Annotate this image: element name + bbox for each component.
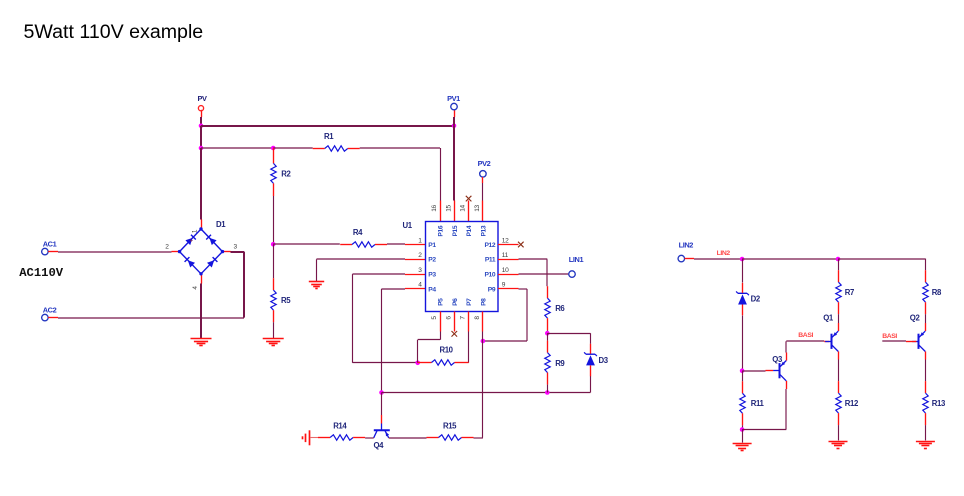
wire [453, 126, 455, 201]
svg-text:R4: R4 [353, 228, 363, 237]
resistor R6 [545, 286, 566, 330]
wire [785, 341, 787, 352]
svg-text:R6: R6 [555, 304, 565, 313]
junction [545, 331, 550, 336]
svg-text:5: 5 [431, 316, 438, 320]
junction [271, 242, 276, 247]
bridge pin 3 stub [223, 251, 231, 253]
bridge pin 4 stub [201, 274, 203, 284]
wire [360, 147, 440, 149]
svg-text:16: 16 [431, 205, 438, 212]
wire [201, 125, 454, 127]
U1 pin 7 name/number [460, 298, 474, 320]
wire [838, 314, 840, 323]
wire [925, 314, 927, 323]
U1 pin 5 name/number [431, 298, 445, 320]
junction [415, 361, 420, 366]
wire [547, 330, 549, 333]
wire [786, 340, 824, 342]
svg-text:BASI: BASI [798, 332, 813, 339]
U1 pin 14 name/number [460, 205, 474, 237]
svg-text:12: 12 [502, 237, 509, 244]
wire [925, 360, 927, 382]
U1 pin 11 name/number [485, 252, 509, 264]
wire [547, 333, 590, 335]
resistor R2 [271, 163, 292, 183]
wire [58, 251, 172, 253]
svg-text:6: 6 [445, 316, 452, 320]
svg-text:P14: P14 [466, 225, 473, 236]
svg-text:R10: R10 [440, 345, 454, 354]
U1 pin 1 stub [405, 244, 426, 246]
wire [231, 251, 245, 253]
wire [387, 243, 405, 245]
transistor Q2 emitter lead [925, 352, 927, 360]
wire [58, 317, 244, 319]
svg-text:2: 2 [165, 243, 169, 250]
svg-text:R9: R9 [555, 359, 565, 368]
U1 pin 13 stub [482, 201, 484, 222]
port PV1 [447, 94, 460, 110]
wire [482, 332, 484, 342]
svg-text:P12: P12 [484, 242, 495, 249]
svg-text:P11: P11 [485, 257, 496, 264]
port AC2 [42, 306, 57, 321]
svg-text:Q4: Q4 [374, 441, 385, 450]
wire [310, 437, 319, 439]
resistor R13 [923, 381, 946, 425]
wire [519, 258, 548, 260]
svg-text:R15: R15 [443, 421, 457, 430]
svg-text:4: 4 [192, 286, 199, 290]
wire [200, 284, 202, 339]
wire [925, 425, 927, 440]
svg-text:LIN2: LIN2 [717, 250, 731, 257]
wire [742, 430, 744, 443]
svg-text:P1: P1 [428, 242, 436, 249]
port AC1 [42, 240, 57, 255]
LIN2 wire stub [685, 258, 695, 260]
wire [316, 259, 318, 281]
wire [273, 196, 275, 244]
svg-text:R1: R1 [324, 132, 334, 141]
svg-text:D3: D3 [599, 356, 609, 365]
U1 pin 11 stub [498, 259, 519, 261]
wire [742, 259, 744, 283]
U1 pin 9 name/number [488, 282, 506, 294]
ground [191, 339, 212, 346]
svg-text:1: 1 [192, 229, 199, 233]
wire [353, 362, 418, 364]
svg-text:D1: D1 [216, 220, 226, 229]
svg-text:10: 10 [502, 267, 509, 274]
svg-text:P15: P15 [452, 225, 459, 236]
wire [742, 316, 744, 371]
svg-text:P8: P8 [481, 298, 488, 306]
transistor Q4 [374, 424, 390, 451]
svg-text:R7: R7 [845, 288, 854, 297]
wire [546, 259, 548, 286]
U1 pin 12 name/number [484, 237, 509, 249]
wire [382, 288, 406, 290]
junction [545, 390, 550, 395]
wire [519, 273, 569, 275]
port PV2 [478, 159, 491, 177]
wire [468, 332, 470, 363]
wire [352, 274, 354, 363]
svg-text:Q2: Q2 [910, 314, 921, 323]
svg-text:P10: P10 [484, 272, 495, 279]
resistor R11 [740, 381, 765, 425]
svg-text:AC110V: AC110V [19, 266, 64, 280]
IC U1 body [403, 221, 499, 311]
U1 pin 7 stub [468, 312, 470, 332]
svg-text:P9: P9 [488, 286, 496, 293]
ground [733, 444, 752, 451]
svg-text:BASI: BASI [882, 333, 897, 340]
svg-text:8: 8 [474, 316, 481, 320]
wire [273, 243, 340, 245]
U1 pin 8 stub [482, 312, 484, 332]
svg-text:11: 11 [502, 252, 509, 259]
port LIN1 [569, 255, 584, 278]
ground [916, 442, 935, 449]
svg-text:R14: R14 [333, 421, 347, 430]
resistor R12 [836, 381, 859, 425]
junction [199, 124, 204, 129]
transistor Q3 base lead [766, 370, 774, 372]
svg-text:R12: R12 [845, 399, 859, 408]
resistor R1 [313, 132, 360, 151]
U1 pin 6 stub [454, 312, 456, 332]
junction [740, 368, 745, 373]
transistor Q1 base lead [824, 341, 829, 343]
svg-text:4: 4 [418, 282, 422, 289]
wire [742, 258, 838, 260]
bridge pin 2 stub [172, 251, 180, 253]
svg-text:R8: R8 [932, 288, 942, 297]
svg-text:14: 14 [460, 205, 467, 212]
U1 pin 3 stub [405, 274, 426, 276]
wire [201, 147, 273, 149]
svg-text:P4: P4 [428, 286, 436, 293]
resistor R15 [427, 421, 474, 440]
svg-text:R2: R2 [281, 170, 291, 179]
svg-text:PV: PV [197, 94, 207, 103]
no-connect X on U1 pin 12 [518, 242, 524, 248]
svg-text:P7: P7 [466, 298, 473, 306]
transistor Q3 emitter lead [786, 353, 788, 361]
svg-text:R5: R5 [281, 296, 291, 305]
resistor R10 [418, 345, 469, 365]
junction [379, 390, 384, 395]
bridge pin 1 stub [201, 220, 203, 230]
wire [590, 333, 592, 344]
U1 pin 1 name/number [418, 237, 436, 249]
U1 pin 2 stub [405, 259, 426, 261]
U1 pin 10 stub [498, 274, 519, 276]
bridge rectifier D1 [165, 220, 237, 290]
U1 pin 14 stub [468, 201, 470, 222]
wire [243, 252, 245, 318]
no-connect X on U1 pin 14 [466, 196, 472, 202]
U1 pin 5 stub [440, 312, 442, 332]
wire [694, 258, 742, 260]
AC1 wire stub [48, 251, 58, 253]
port PV [197, 94, 207, 111]
U1 pin 2 name/number [418, 252, 436, 264]
no-connect X on U1 pin 6 [452, 331, 458, 337]
wire [382, 392, 591, 394]
svg-text:P6: P6 [452, 298, 459, 306]
svg-text:13: 13 [474, 205, 481, 212]
wire [200, 117, 202, 126]
transistor Q2 collector lead [925, 323, 927, 331]
junction [271, 146, 276, 151]
junction [740, 427, 745, 432]
resistor R2 top lead [273, 148, 275, 163]
wire [273, 244, 275, 278]
zener diode D2 [736, 283, 761, 316]
wire [317, 258, 406, 260]
ground (earth, rotated) [303, 430, 310, 445]
port PV wire stub [201, 110, 203, 117]
wire [273, 147, 313, 149]
transistor Q1 [823, 314, 838, 352]
transistor Q2 [910, 314, 926, 352]
transistor Q1 emitter lead [838, 352, 840, 360]
transistor Q1 collector lead [838, 323, 840, 331]
port LIN2 [678, 240, 693, 261]
wire [200, 148, 202, 220]
port PV1 wire stub [454, 110, 456, 117]
transistor Q3 collector lead [786, 381, 788, 389]
wire [882, 340, 906, 342]
resistor R5 [271, 278, 291, 322]
svg-text:P3: P3 [428, 272, 436, 279]
transistor Q2 base lead [906, 341, 916, 343]
svg-text:P13: P13 [481, 225, 488, 236]
U1 pin 15 stub [454, 201, 456, 222]
wire [440, 148, 442, 201]
U1 pin 16 stub [440, 201, 442, 222]
wire [838, 259, 840, 271]
wire [526, 289, 528, 341]
wire [365, 437, 374, 439]
resistor R9 [545, 341, 566, 385]
wire [785, 389, 787, 430]
wire [925, 259, 927, 271]
wire [483, 340, 527, 342]
U1 pin 4 name/number [418, 282, 436, 294]
ground [309, 282, 324, 289]
wire [547, 385, 549, 393]
wire [742, 370, 765, 372]
wire [353, 273, 406, 275]
U1 pin 10 name/number [484, 267, 509, 279]
resistor R7 [836, 270, 854, 314]
svg-text:PV1: PV1 [447, 94, 460, 103]
svg-text:3: 3 [234, 243, 238, 250]
svg-text:15: 15 [445, 205, 452, 212]
wire [381, 393, 383, 416]
U1 pin 15 name/number [445, 205, 459, 237]
svg-text:5Watt 110V example: 5Watt 110V example [24, 21, 204, 43]
svg-text:R11: R11 [751, 399, 765, 408]
wire [838, 258, 925, 260]
port PV2 wire stub [482, 177, 484, 183]
svg-text:P5: P5 [438, 298, 445, 306]
svg-text:P16: P16 [438, 225, 445, 236]
svg-text:9: 9 [502, 282, 506, 289]
wire [418, 339, 440, 341]
wire [519, 288, 528, 290]
wire [273, 322, 275, 338]
svg-text:U1: U1 [403, 221, 413, 230]
svg-text:Q3: Q3 [772, 355, 783, 364]
junction [836, 257, 841, 262]
U1 pin 6 name/number [445, 298, 459, 320]
wire [389, 437, 427, 439]
transistor Q3 [772, 355, 786, 381]
junction [481, 339, 486, 344]
zener diode D3 [584, 344, 609, 377]
U1 pin 16 name/number [431, 205, 445, 237]
svg-text:AC2: AC2 [43, 306, 57, 315]
AC2 wire stub [48, 317, 58, 319]
U1 pin 8 name/number [474, 298, 488, 320]
svg-text:7: 7 [460, 316, 467, 320]
wire [838, 360, 840, 382]
wire [482, 183, 484, 201]
ground [263, 339, 284, 346]
svg-text:P2: P2 [428, 257, 436, 264]
wire [381, 289, 383, 393]
wire [742, 371, 744, 382]
wire [200, 126, 202, 148]
wire [590, 376, 592, 393]
U1 pin 4 stub [405, 288, 426, 290]
svg-text:D2: D2 [751, 295, 761, 304]
junction [740, 257, 745, 262]
wire [547, 333, 549, 340]
wire [482, 341, 484, 438]
resistor R8 [923, 270, 942, 314]
transistor Q4 base lead [381, 415, 383, 424]
resistor R2 bottom lead [273, 183, 275, 196]
svg-text:AC1: AC1 [43, 240, 57, 249]
wire [742, 429, 786, 431]
wire [838, 425, 840, 440]
svg-text:2: 2 [418, 252, 422, 259]
resistor R14 [318, 421, 365, 440]
wire [453, 117, 455, 126]
svg-text:1: 1 [418, 237, 422, 244]
wire [417, 340, 419, 363]
U1 pin 12 stub [498, 244, 519, 246]
wire [742, 425, 744, 429]
U1 pin 13 name/number [474, 205, 488, 237]
U1 pin 3 name/number [418, 267, 436, 279]
svg-text:3: 3 [418, 267, 422, 274]
junction [199, 146, 204, 151]
junction [452, 124, 457, 129]
svg-text:Q1: Q1 [823, 314, 834, 323]
svg-text:LIN2: LIN2 [679, 240, 694, 249]
wire [440, 332, 442, 340]
resistor R4 [340, 228, 387, 247]
svg-text:R13: R13 [932, 399, 946, 408]
svg-text:LIN1: LIN1 [569, 255, 584, 264]
ground [829, 442, 848, 449]
U1 pin 9 stub [498, 288, 519, 290]
wire [474, 437, 483, 439]
svg-text:PV2: PV2 [478, 159, 491, 168]
